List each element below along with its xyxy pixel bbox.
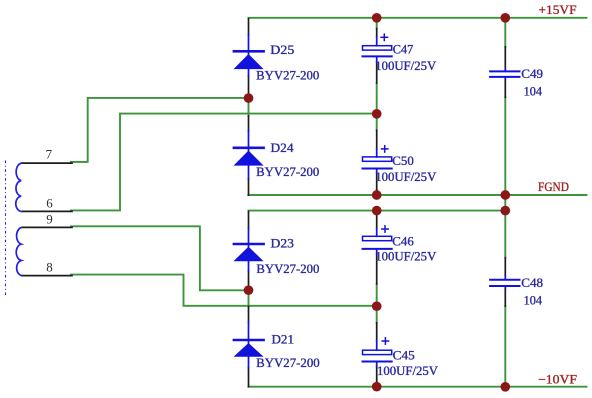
- svg-text:100UF/25V: 100UF/25V: [375, 59, 436, 73]
- svg-text:100UF/25V: 100UF/25V: [375, 250, 436, 264]
- svg-text:BYV27-200: BYV27-200: [256, 68, 319, 82]
- svg-text:D24: D24: [271, 141, 294, 155]
- svg-text:C46: C46: [392, 234, 414, 248]
- svg-text:9: 9: [46, 211, 53, 226]
- svg-text:C50: C50: [392, 154, 414, 168]
- svg-text:6: 6: [46, 195, 53, 210]
- svg-text:104: 104: [524, 85, 543, 99]
- svg-text:D21: D21: [272, 332, 295, 346]
- svg-text:C45: C45: [393, 348, 415, 362]
- svg-text:C48: C48: [521, 276, 543, 290]
- svg-text:+15VF: +15VF: [539, 3, 577, 17]
- svg-text:C49: C49: [521, 67, 543, 81]
- svg-text:100UF/25V: 100UF/25V: [375, 170, 436, 184]
- svg-text:100UF/25V: 100UF/25V: [377, 364, 438, 378]
- svg-text:FGND: FGND: [538, 180, 569, 194]
- svg-text:D25: D25: [270, 43, 294, 57]
- svg-text:BYV27-200: BYV27-200: [256, 356, 320, 370]
- svg-text:C47: C47: [393, 43, 414, 57]
- svg-text:104: 104: [524, 294, 543, 308]
- svg-text:7: 7: [46, 147, 53, 162]
- svg-text:BYV27-200: BYV27-200: [256, 262, 319, 276]
- svg-text:8: 8: [46, 259, 53, 274]
- svg-text:−10VF: −10VF: [538, 372, 577, 386]
- svg-text:D23: D23: [271, 236, 295, 250]
- svg-text:BYV27-200: BYV27-200: [256, 165, 319, 179]
